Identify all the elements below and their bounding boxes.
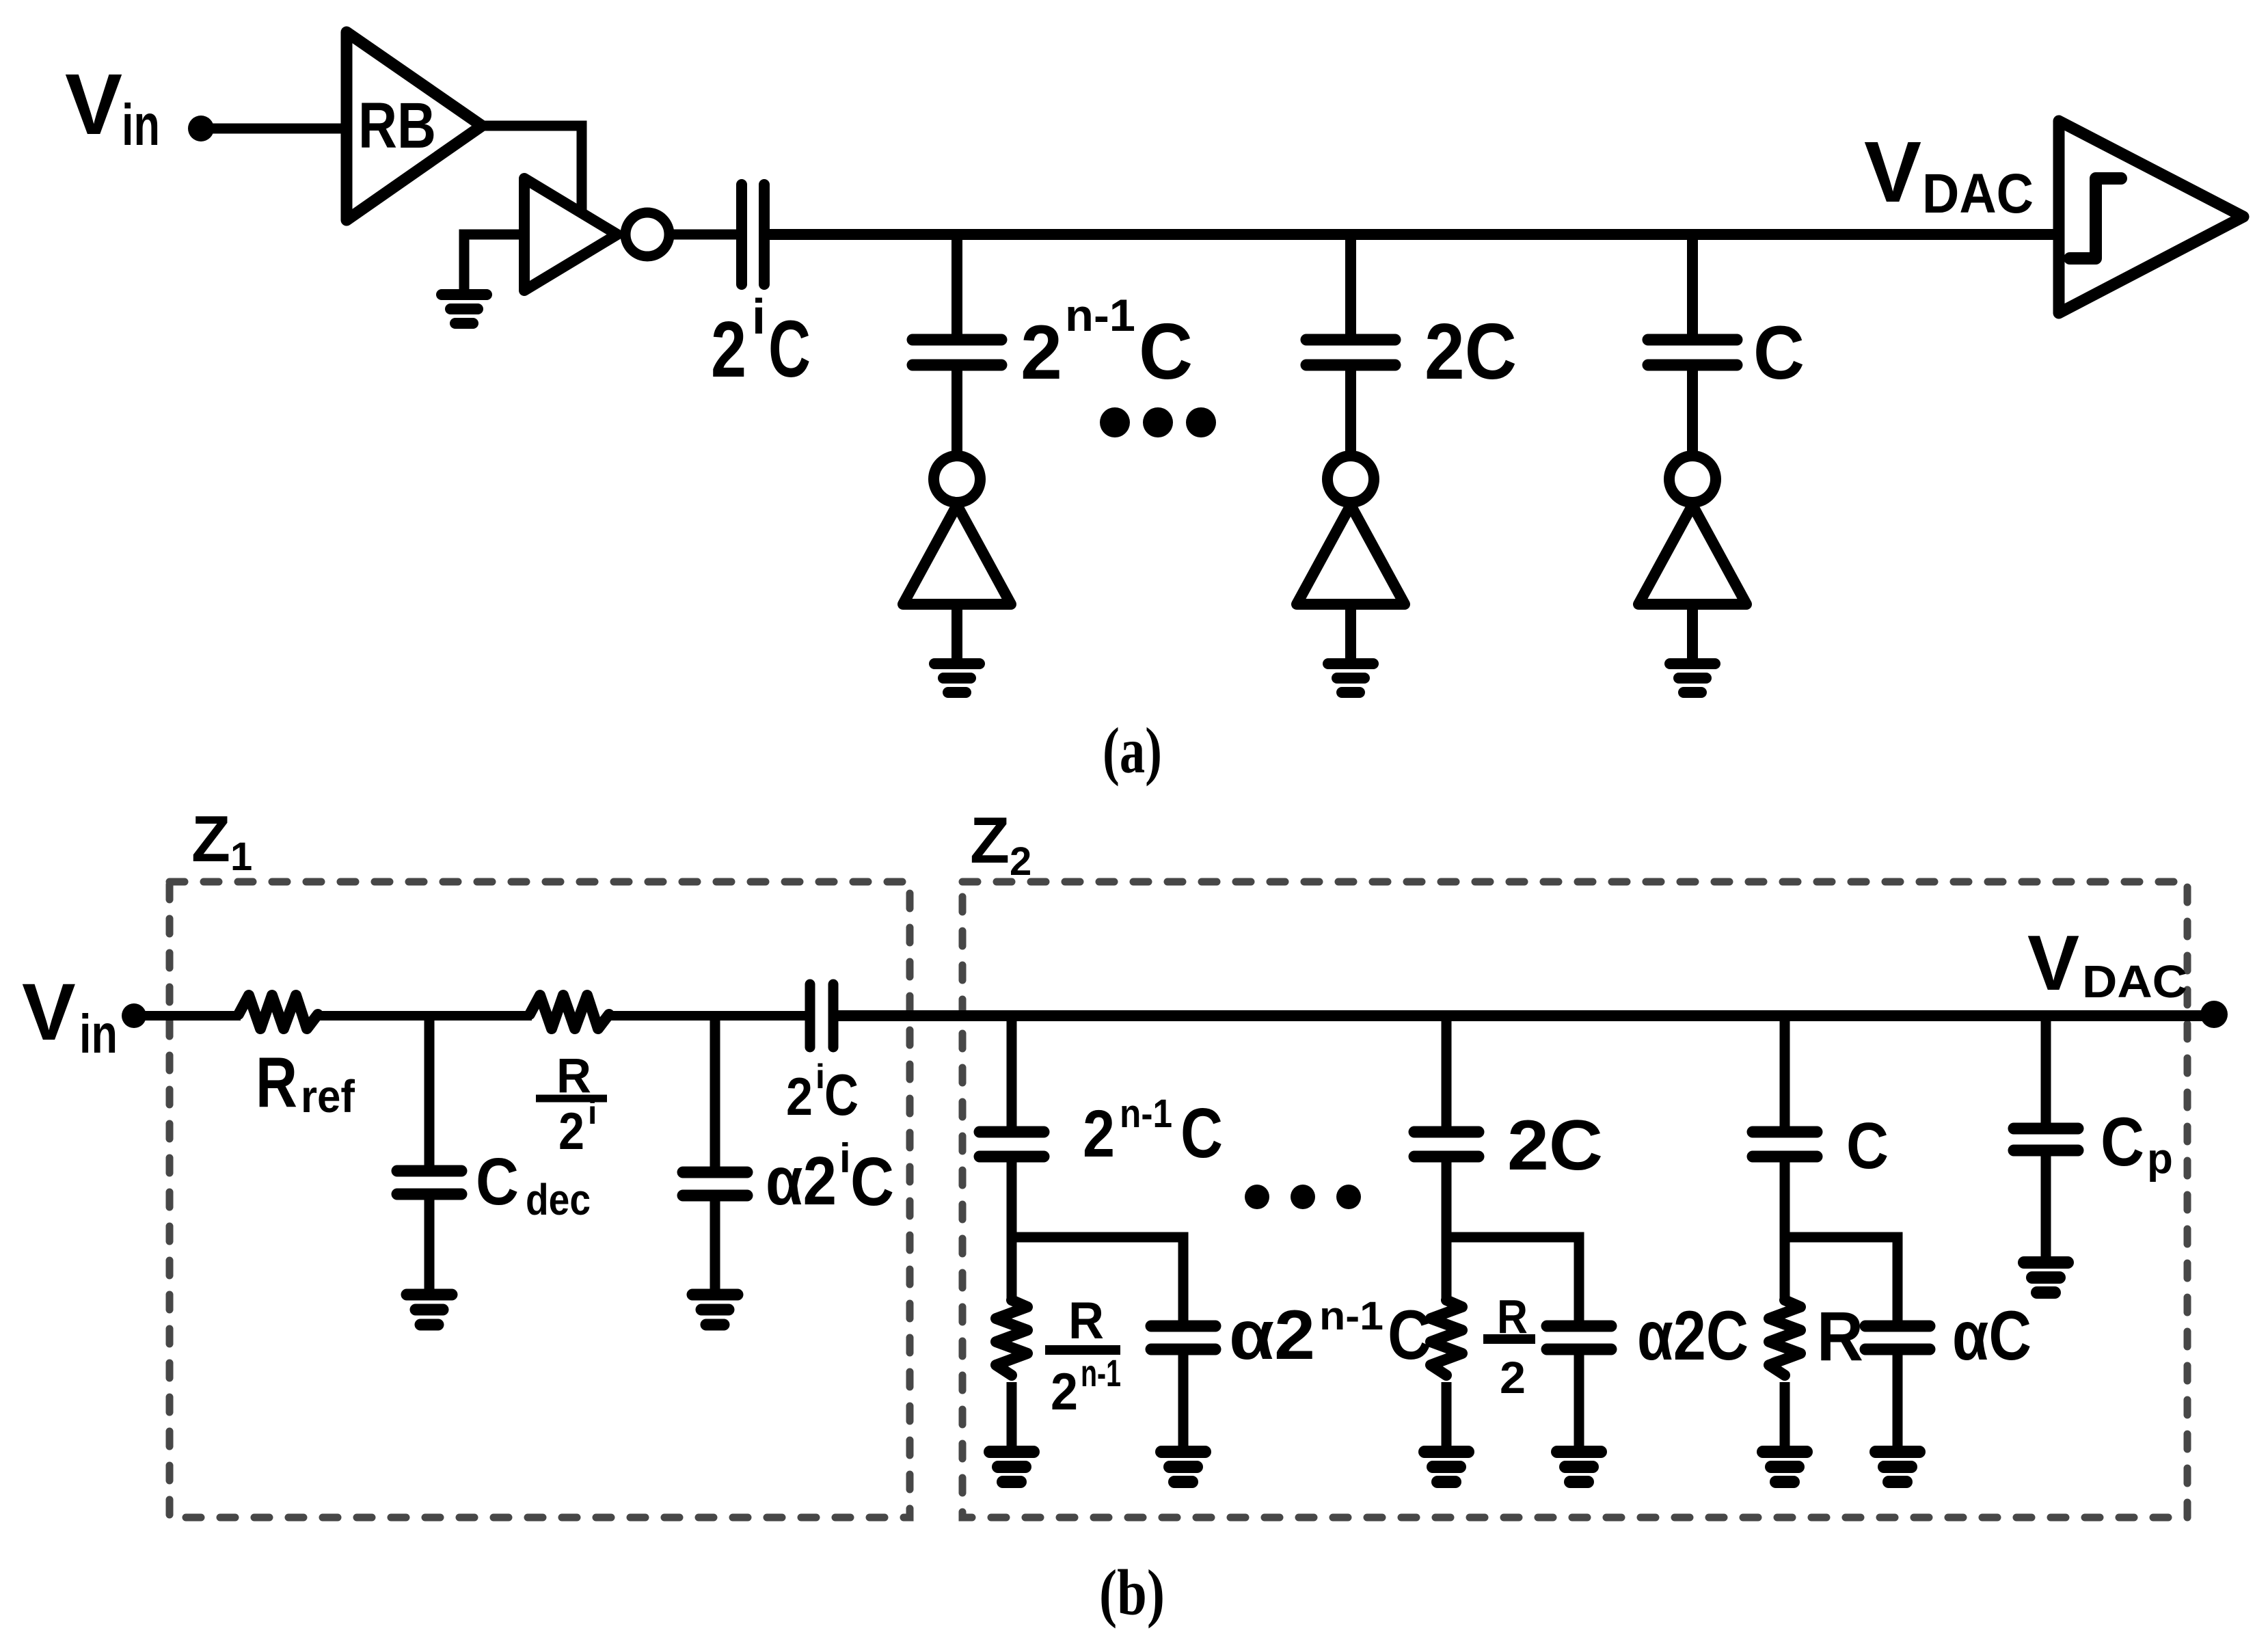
svg-text:C: C: [1180, 1094, 1223, 1172]
wire branch 1 cap to driver: [951, 365, 962, 455]
ground (branch 3): [1670, 664, 1715, 692]
wire cap to ground (branch 3 right): [1893, 1349, 1903, 1448]
svg-text:C: C: [1139, 307, 1193, 396]
wire branch 2 cap to driver: [1345, 365, 1356, 455]
svg-text:2C: 2C: [1425, 307, 1517, 396]
wire resistor to ground (branch 3): [1780, 1382, 1790, 1448]
wire cap to junction (branch 2): [1442, 1157, 1452, 1299]
resistor R/2^i: [530, 995, 609, 1029]
node Vin label (b): [22, 967, 118, 1064]
capacitor 2^(n-1)C (b): [980, 1132, 1044, 1157]
driver inverter (branch 2): [1297, 456, 1405, 604]
box Z2 dashed: [962, 882, 2187, 1517]
svg-text:2: 2: [1010, 839, 1031, 884]
label Rref: [256, 1043, 355, 1122]
driver inverter (branch 1): [903, 456, 1011, 604]
capacitor alphaC: [1865, 1326, 1930, 1349]
label 2^(n-1)C (b): [1083, 1092, 1223, 1172]
svg-text:in: in: [79, 1003, 118, 1064]
wire bubble to capacitor 2^iC: [669, 230, 742, 240]
node VDAC label (b): [2027, 920, 2187, 1008]
wire Rref to R/2^i: [317, 1011, 532, 1021]
capacitor C (a): [1648, 340, 1737, 365]
svg-text:n-1: n-1: [1065, 290, 1135, 340]
node Vin terminal dot (a): [188, 116, 214, 141]
label Z1: [191, 802, 252, 879]
svg-text:R: R: [1068, 1292, 1104, 1350]
ground (branch 2 resistor): [1425, 1452, 1468, 1482]
svg-text:i: i: [815, 1057, 825, 1096]
resistor Rref: [239, 995, 318, 1029]
wire branch 3 cap to driver: [1687, 365, 1698, 455]
svg-text:C: C: [768, 304, 811, 394]
svg-text:C: C: [850, 1144, 894, 1220]
capacitor 2C (a): [1306, 340, 1395, 365]
buffer RB: [347, 32, 482, 220]
svg-text:α2: α2: [1229, 1296, 1315, 1374]
label Cdec: [476, 1144, 591, 1224]
wire resistor to ground (branch 1): [1007, 1382, 1017, 1448]
ground (inverter U1 input): [442, 295, 487, 323]
node VDAC label (a): [1864, 124, 2034, 225]
svg-text:DAC: DAC: [2082, 956, 2187, 1008]
svg-text:C: C: [1388, 1296, 1431, 1374]
svg-text:R: R: [1817, 1297, 1863, 1375]
wire main bus (b): [833, 1010, 2214, 1021]
branch Cp drop wire: [2041, 1016, 2051, 1129]
svg-text:2: 2: [1500, 1352, 1526, 1403]
svg-text:RB: RB: [358, 90, 436, 162]
svg-text:R: R: [256, 1043, 297, 1122]
wire main DAC bus (a): [764, 229, 2059, 240]
wire branch 3 driver to ground: [1687, 604, 1698, 660]
wire branch 2 drop: [1345, 234, 1356, 340]
svg-text:1: 1: [230, 835, 252, 879]
svg-text:n-1: n-1: [1319, 1294, 1383, 1338]
svg-text:(a): (a): [1103, 714, 1162, 787]
wire cap to ground (branch 1 right): [1178, 1349, 1189, 1448]
capacitor alpha2^iC: [683, 1172, 747, 1196]
svg-text:C: C: [1753, 311, 1805, 395]
wire resistor to ground (branch 2): [1442, 1382, 1452, 1448]
svg-text:C: C: [476, 1144, 519, 1219]
ground (branch 1): [934, 664, 980, 692]
ground (Cdec): [407, 1295, 452, 1325]
svg-text:2C: 2C: [1507, 1106, 1603, 1185]
svg-text:(b): (b): [1099, 1556, 1165, 1629]
svg-text:p: p: [2147, 1135, 2173, 1183]
wire junction link (branch 2): [1446, 1237, 1579, 1326]
svg-text:dec: dec: [526, 1175, 591, 1224]
ground (Cp): [2024, 1262, 2068, 1293]
capacitor 2^iC (series, part a): [742, 185, 764, 284]
wire cap to ground (branch 2 right): [1574, 1349, 1584, 1448]
capacitor 2^iC (series, part b): [810, 984, 833, 1047]
inverter U1: [524, 178, 669, 291]
svg-text:2: 2: [786, 1066, 813, 1126]
ground (branch 3 cap): [1876, 1452, 1919, 1482]
wire inverter input to ground: [464, 234, 524, 293]
ground (branch 2): [1328, 664, 1373, 692]
ground (alpha2^iC): [692, 1295, 738, 1325]
wire R/2^i to cap 2^iC: [608, 1011, 810, 1021]
label alpha2^(n-1)C: [1229, 1294, 1431, 1374]
wire Vin to Rref: [134, 1011, 241, 1021]
svg-text:2: 2: [711, 305, 746, 394]
label Z2: [970, 804, 1031, 884]
capacitor alpha2C: [1547, 1326, 1611, 1349]
label alpha2^iC: [766, 1135, 894, 1220]
node A drop wire to Cdec: [424, 1016, 435, 1171]
ground (branch 1 cap): [1161, 1452, 1205, 1482]
branch 2^(n-1)C drop wire: [1007, 1016, 1017, 1132]
svg-text:C: C: [824, 1063, 859, 1128]
label 2^iC (b): [786, 1057, 859, 1128]
wire RB output to inverter: [482, 126, 582, 213]
branch 2C drop wire: [1442, 1016, 1452, 1132]
ground (branch 1 resistor): [990, 1452, 1034, 1482]
wire Cp to ground: [2041, 1150, 2051, 1258]
wire Vin to RB input: [201, 124, 347, 134]
capacitor alpha2^(n-1)C: [1151, 1326, 1215, 1349]
svg-text:C: C: [1846, 1109, 1889, 1183]
capacitor 2^(n-1)C (a): [913, 340, 1001, 365]
wire branch 2 driver to ground: [1345, 604, 1356, 660]
ellipsis dots (a): [1100, 407, 1216, 437]
svg-text:V: V: [65, 56, 122, 152]
capacitor Cdec: [397, 1171, 461, 1194]
wire alpha2^iC to ground: [710, 1196, 720, 1292]
wire cap to junction (branch 1): [1007, 1157, 1017, 1299]
capacitor C (b): [1753, 1132, 1817, 1157]
label Cp: [2101, 1104, 2173, 1183]
capacitor 2C (b): [1414, 1132, 1479, 1157]
svg-text:2: 2: [1021, 310, 1062, 395]
comparator U2: [2059, 121, 2243, 313]
svg-text:Z: Z: [970, 804, 1010, 877]
wire Cdec to ground: [424, 1194, 435, 1292]
driver inverter (branch 3): [1638, 456, 1746, 604]
svg-text:2: 2: [1051, 1363, 1078, 1421]
svg-text:DAC: DAC: [1922, 163, 2034, 225]
svg-text:αC: αC: [1952, 1297, 2031, 1375]
resistor R (branch 3): [1769, 1300, 1800, 1375]
box Z1 dashed: [170, 882, 910, 1517]
branch C drop wire: [1780, 1016, 1790, 1132]
svg-text:n-1: n-1: [1120, 1092, 1172, 1136]
wire branch 3 drop: [1687, 234, 1698, 340]
wire branch 1 drop: [951, 234, 962, 340]
wire junction link (branch 1): [1012, 1237, 1183, 1326]
capacitor Cp: [2014, 1129, 2078, 1150]
svg-text:2: 2: [1083, 1096, 1115, 1171]
ground (branch 2 cap): [1557, 1452, 1601, 1482]
svg-text:i: i: [839, 1135, 851, 1181]
node B drop wire to alpha-2^iC: [710, 1016, 720, 1172]
label R/2^i: [536, 1049, 607, 1161]
label R/2: [1483, 1290, 1535, 1403]
label R/2^(n-1): [1045, 1292, 1121, 1421]
svg-text:2: 2: [558, 1103, 584, 1161]
svg-text:V: V: [22, 967, 76, 1057]
node VDAC terminal dot (b): [2200, 1001, 2228, 1028]
svg-text:i: i: [588, 1095, 597, 1131]
svg-text:n-1: n-1: [1081, 1351, 1121, 1394]
wire cap to junction (branch 3): [1780, 1157, 1790, 1299]
ellipsis dots (b): [1245, 1185, 1361, 1209]
node Vin terminal dot (b): [122, 1003, 146, 1028]
svg-text:i: i: [752, 290, 766, 345]
wire junction link (branch 3): [1785, 1237, 1898, 1326]
label 2^(n-1)C (a): [1021, 290, 1193, 396]
resistor R/2^(n-1): [996, 1300, 1027, 1375]
svg-text:in: in: [122, 93, 160, 158]
ground (branch 3 resistor): [1763, 1452, 1807, 1482]
label 2^iC (part a): [711, 290, 811, 394]
svg-text:V: V: [2027, 920, 2079, 1007]
svg-text:α2C: α2C: [1637, 1297, 1749, 1375]
resistor R/2: [1431, 1300, 1462, 1375]
wire branch 1 driver to ground: [951, 604, 962, 660]
svg-text:ref: ref: [301, 1071, 355, 1122]
svg-text:V: V: [1864, 124, 1921, 220]
svg-text:C: C: [2101, 1104, 2144, 1180]
svg-text:α2: α2: [766, 1143, 837, 1219]
svg-text:Z: Z: [191, 802, 230, 876]
